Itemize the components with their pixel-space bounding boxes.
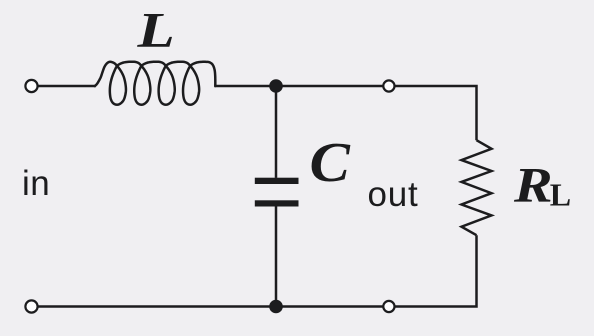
inductor L [95,62,216,105]
node: out bottom (open circle) [383,301,394,312]
wire: out node to top-right corner, down to resistor [389,86,477,140]
svg-text:C: C [310,131,352,193]
svg-text:in: in [22,164,50,203]
node: out top (open circle) [383,80,394,91]
wire: capacitor branch upper [275,86,278,178]
wire: bottom rail (terminal to out node) [38,305,389,308]
wire: resistor bottom to corner, back to out node [389,235,477,306]
svg-text:out: out [368,175,419,214]
capacitor C top plate [255,178,299,184]
wire: input top terminal to inductor [38,85,96,88]
svg-text:R: R [513,157,553,212]
capacitor C bottom plate [255,200,299,206]
svg-text:L: L [136,3,174,59]
node: bottom junction (filled dot) [269,300,283,314]
wire: capacitor branch lower [275,207,278,307]
node: top junction (filled dot) [269,79,283,93]
resistor RL (zigzag) [462,140,492,235]
svg-text:L: L [550,176,571,212]
wire: inductor to out node (through top junction) [214,85,389,88]
terminal: input top (open circle) [25,80,37,92]
terminal: input bottom (open circle) [25,300,37,312]
